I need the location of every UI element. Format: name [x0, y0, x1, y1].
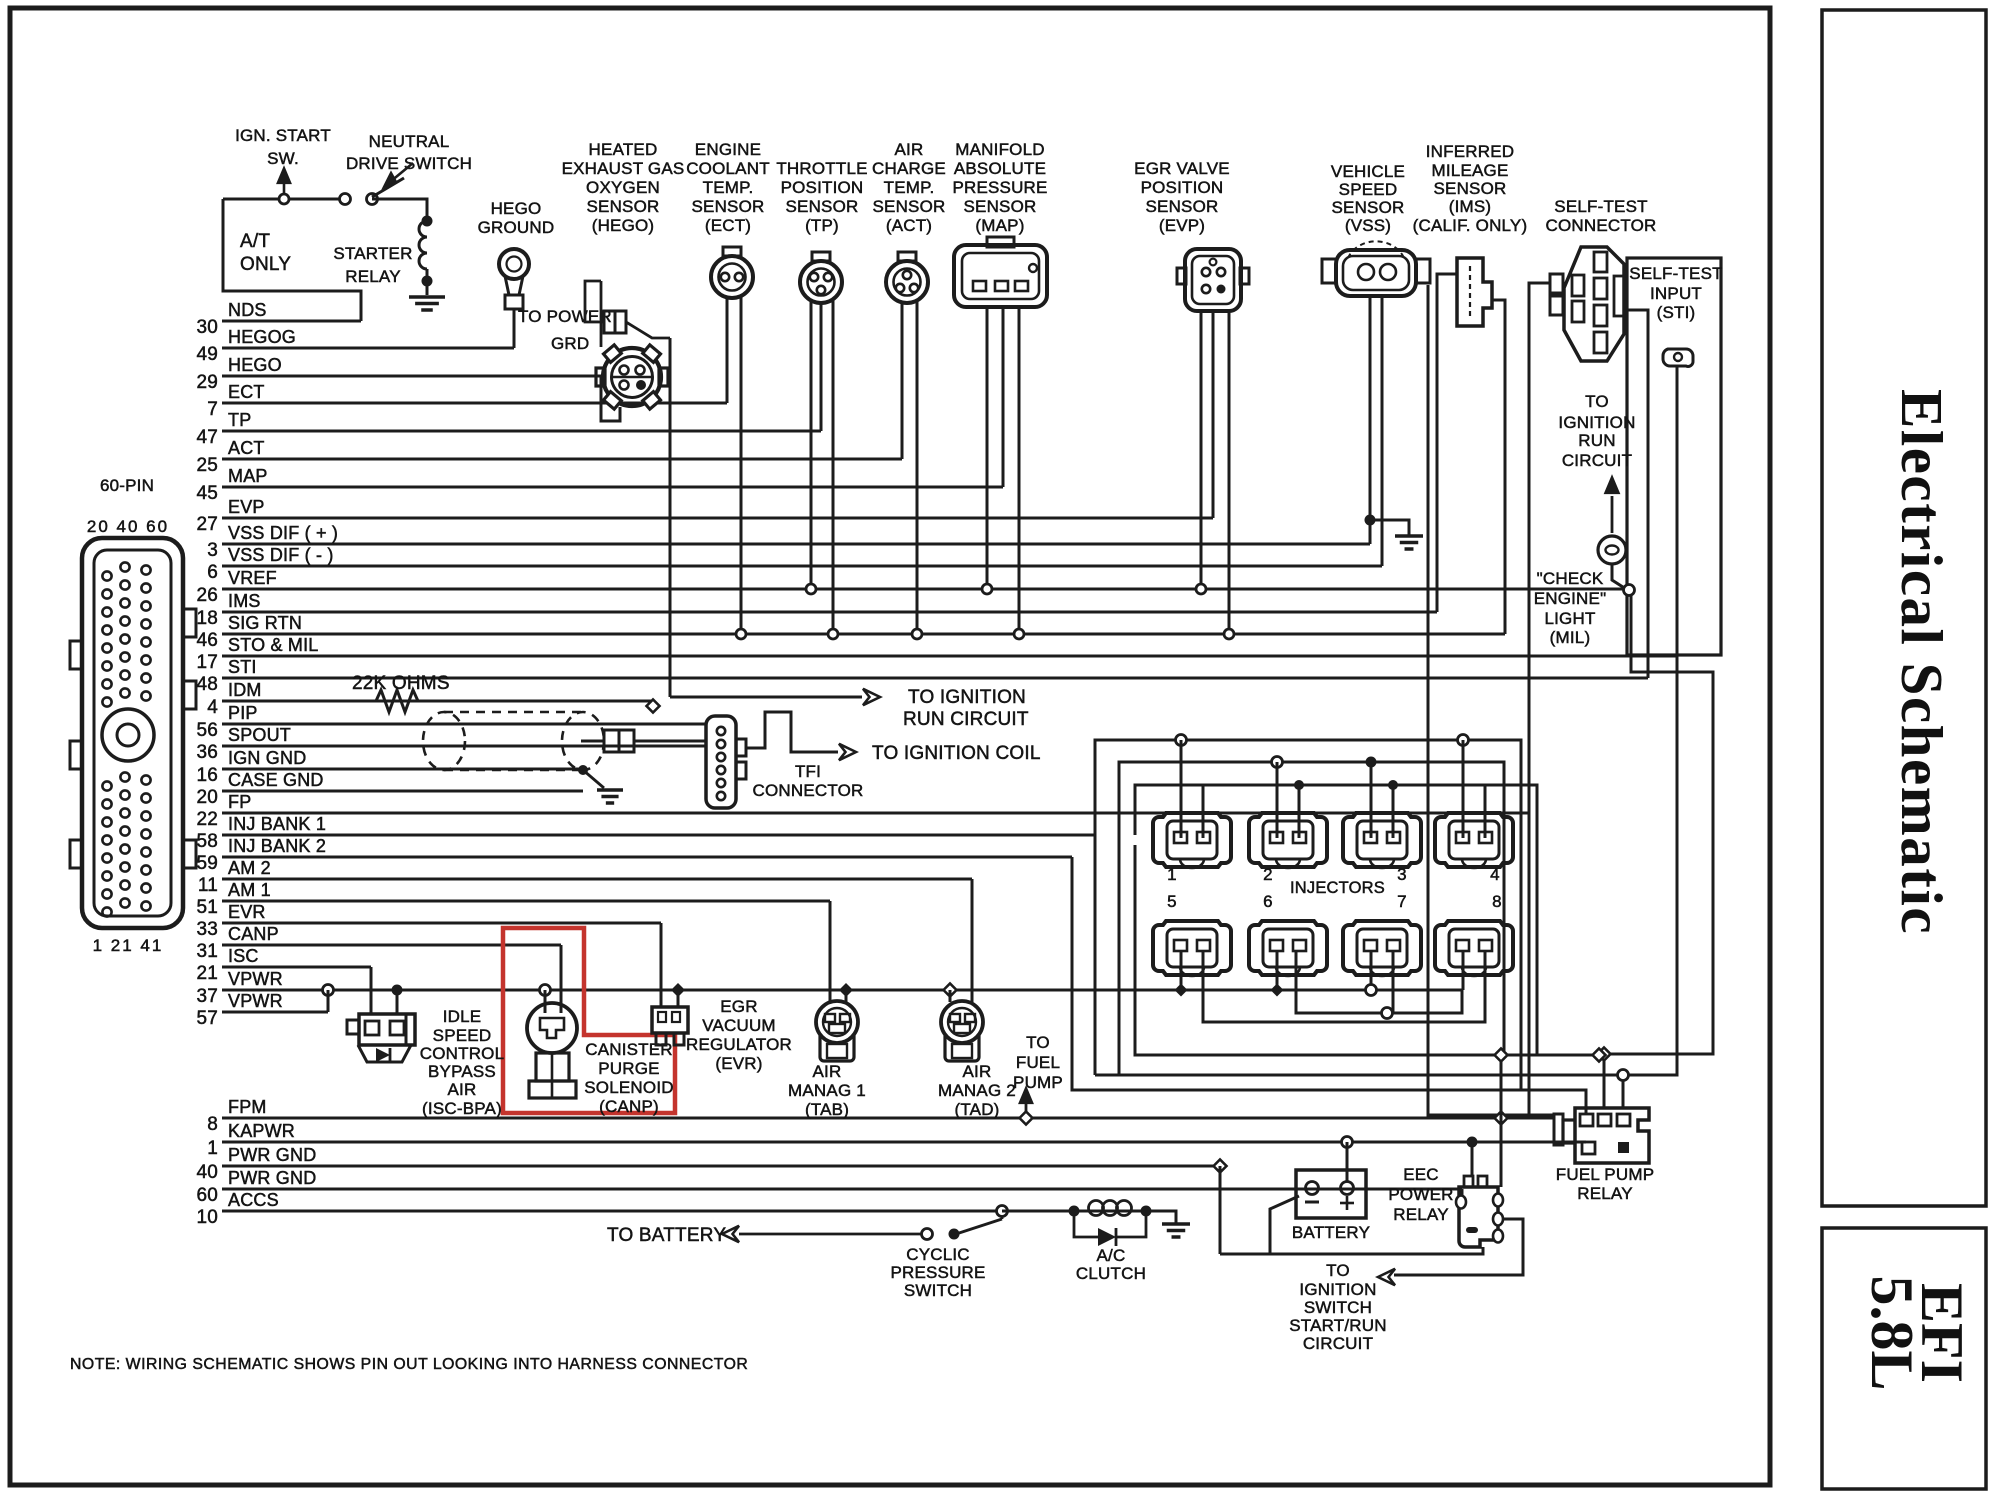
- svg-text:20: 20: [196, 787, 218, 808]
- svg-text:REGULATOR: REGULATOR: [686, 1035, 792, 1054]
- injector 4: [1435, 813, 1513, 867]
- svg-text:PUMP: PUMP: [1013, 1073, 1063, 1092]
- svg-text:FP: FP: [228, 792, 251, 812]
- svg-text:59: 59: [196, 853, 218, 874]
- check engine light (MIL): [1598, 536, 1626, 564]
- svg-text:A/C: A/C: [1097, 1246, 1126, 1265]
- inline connector wire: [581, 740, 604, 743]
- PWR GND 60 bend to EEC left pin: [1461, 1189, 1464, 1196]
- svg-text:21: 21: [196, 963, 218, 984]
- svg-text:ISC: ISC: [228, 946, 259, 966]
- injector 6: [1249, 921, 1327, 975]
- svg-text:RUN CIRCUIT: RUN CIRCUIT: [903, 709, 1029, 730]
- svg-text:16: 16: [196, 765, 218, 786]
- inline connector on HEGO power lead: [604, 311, 615, 333]
- svg-text:25: 25: [196, 455, 218, 476]
- wire ECT pin 7: [222, 402, 727, 405]
- svg-text:5: 5: [1167, 892, 1177, 911]
- injector 8: [1435, 921, 1513, 975]
- wire A/T circuit top: [223, 198, 345, 201]
- svg-text:6: 6: [207, 562, 218, 583]
- injector 3: [1343, 813, 1421, 867]
- TAD leads: [944, 984, 957, 997]
- svg-text:THROTTLE: THROTTLE: [776, 159, 867, 178]
- svg-text:49: 49: [196, 344, 218, 365]
- svg-text:BATTERY: BATTERY: [1292, 1223, 1370, 1242]
- svg-text:ACT: ACT: [228, 438, 265, 458]
- svg-text:AM 2: AM 2: [228, 858, 271, 878]
- svg-text:TO IGNITION: TO IGNITION: [908, 687, 1026, 708]
- wire ACT pin 25: [222, 458, 902, 461]
- svg-text:22: 22: [196, 809, 218, 830]
- wire SPOUT pin 36: [222, 745, 706, 748]
- IMS leads: [1437, 274, 1457, 612]
- svg-text:18: 18: [196, 608, 218, 629]
- svg-text:TO: TO: [1585, 392, 1609, 411]
- svg-text:CANP: CANP: [228, 924, 279, 944]
- wire EVR pin 33: [222, 922, 661, 925]
- wire ISC pin 21: [222, 966, 371, 969]
- svg-text:EFI: EFI: [1909, 1283, 1975, 1383]
- svg-text:RELAY: RELAY: [1577, 1184, 1633, 1203]
- resistor 22K OHMS on IDM: [376, 690, 418, 712]
- svg-text:3: 3: [1397, 865, 1407, 884]
- wire CANP pin 31: [222, 944, 561, 947]
- svg-text:58: 58: [196, 831, 218, 852]
- svg-text:VPWR: VPWR: [228, 969, 283, 989]
- self-test connector symbol: [1564, 247, 1624, 361]
- svg-text:1 21 41: 1 21 41: [93, 936, 164, 955]
- wire STO & MIL pin 17: [222, 655, 1677, 658]
- sensor EVP (EGR valve position): [1185, 249, 1241, 311]
- wire IMS pin 18: [222, 611, 1437, 614]
- switch blade: [372, 178, 404, 197]
- ACT leads: [901, 302, 904, 459]
- sensor ACT (air charge temp): [886, 261, 928, 303]
- EEC to ignition switch wire: [1394, 1219, 1523, 1275]
- svg-text:TP: TP: [228, 410, 251, 430]
- svg-text:POSITION: POSITION: [1141, 178, 1224, 197]
- svg-text:VSS DIF ( - ): VSS DIF ( - ): [228, 545, 334, 565]
- vertical from diamonds to EEC top: [1495, 1112, 1508, 1125]
- connector pin holes: [102, 571, 111, 580]
- svg-text:OXYGEN: OXYGEN: [586, 178, 660, 197]
- svg-text:VSS DIF ( + ): VSS DIF ( + ): [228, 523, 338, 543]
- wire FP pin 22: [222, 812, 1529, 815]
- TAB (air manag 1) connector: [816, 1001, 858, 1043]
- svg-text:DRIVE SWITCH: DRIVE SWITCH: [346, 154, 472, 173]
- svg-text:SWITCH: SWITCH: [904, 1281, 972, 1300]
- svg-text:PRESSURE: PRESSURE: [890, 1263, 985, 1282]
- svg-text:Electrical Schematic: Electrical Schematic: [1889, 389, 1955, 935]
- wire PWR GND pin 40: [222, 1165, 1220, 1168]
- injector 7: [1343, 921, 1421, 975]
- svg-text:33: 33: [196, 919, 218, 940]
- svg-text:46: 46: [196, 630, 218, 651]
- svg-text:ABSOLUTE: ABSOLUTE: [954, 159, 1046, 178]
- svg-text:FUEL: FUEL: [1016, 1053, 1060, 1072]
- wire ACCS pin 10: [222, 1210, 1002, 1213]
- wire MAP pin 45: [222, 486, 1003, 489]
- svg-text:RUN: RUN: [1578, 431, 1615, 450]
- wire TO IGNITION COIL: [746, 712, 838, 752]
- arrow to IGN. START SW.: [283, 174, 286, 194]
- wire HEGOG pin 49: [222, 347, 514, 350]
- svg-text:SWITCH: SWITCH: [1304, 1298, 1372, 1317]
- svg-text:HEGOG: HEGOG: [228, 327, 296, 347]
- svg-text:37: 37: [196, 986, 218, 1007]
- svg-text:CASE GND: CASE GND: [228, 770, 324, 790]
- svg-text:EVP: EVP: [228, 497, 265, 517]
- svg-text:NOTE: WIRING SCHEMATIC SHOWS P: NOTE: WIRING SCHEMATIC SHOWS PIN OUT LOO…: [70, 1356, 748, 1373]
- TO FUEL PUMP arrow: [1020, 1112, 1033, 1125]
- svg-text:SENSOR: SENSOR: [692, 197, 765, 216]
- EEC power relay symbol: [1459, 1187, 1498, 1247]
- VPWR bend into injector bottom bus: [1296, 952, 1462, 1013]
- switch contact right: [367, 194, 378, 205]
- svg-text:3: 3: [207, 540, 218, 561]
- wire IDM pin 4: [222, 700, 653, 703]
- wire INJ BANK 1 pin 58: [222, 834, 1095, 837]
- sensor HEGO (heated exhaust gas oxygen): [603, 348, 661, 406]
- svg-text:EGR: EGR: [720, 997, 757, 1016]
- svg-text:ENGINE: ENGINE: [695, 140, 761, 159]
- self-test left wire down to FP row and relay: [1529, 283, 1554, 1115]
- svg-text:MAP: MAP: [228, 466, 268, 486]
- junction circles on SIG RTN row: [736, 629, 746, 639]
- wire TP pin 47: [222, 430, 821, 433]
- svg-text:SENSOR: SENSOR: [1434, 179, 1507, 198]
- svg-text:57: 57: [196, 1008, 218, 1029]
- svg-text:BYPASS: BYPASS: [428, 1062, 496, 1081]
- svg-text:SENSOR: SENSOR: [786, 197, 859, 216]
- svg-text:EVR: EVR: [228, 902, 266, 922]
- svg-text:HEATED: HEATED: [589, 140, 658, 159]
- svg-text:4: 4: [1490, 865, 1500, 884]
- svg-text:(MIL): (MIL): [1550, 628, 1591, 647]
- svg-text:CYCLIC: CYCLIC: [906, 1245, 970, 1264]
- svg-text:NEUTRAL: NEUTRAL: [369, 132, 450, 151]
- svg-text:EEC: EEC: [1403, 1165, 1439, 1184]
- svg-text:(TAB): (TAB): [805, 1100, 849, 1119]
- svg-text:POSITION: POSITION: [781, 178, 864, 197]
- svg-text:30: 30: [196, 317, 218, 338]
- svg-text:11: 11: [198, 875, 218, 896]
- connector center jack screw: [102, 709, 154, 761]
- ground for A/C clutch: [1146, 1211, 1176, 1224]
- svg-text:HEGO: HEGO: [228, 355, 282, 375]
- ECT leads: [726, 298, 729, 403]
- svg-text:INJECTORS: INJECTORS: [1290, 879, 1385, 897]
- svg-text:PURGE: PURGE: [598, 1059, 659, 1078]
- TAB leads: [829, 901, 832, 1003]
- svg-text:SENSOR: SENSOR: [1332, 198, 1405, 217]
- svg-text:SPEED: SPEED: [433, 1026, 492, 1045]
- svg-text:PWR GND: PWR GND: [228, 1145, 316, 1165]
- svg-text:48: 48: [196, 674, 218, 695]
- svg-text:"CHECK: "CHECK: [1537, 569, 1604, 588]
- wire SIG RTN pin 46: [222, 633, 1505, 636]
- svg-text:CONTROL: CONTROL: [420, 1044, 505, 1063]
- shielded cable dashed oval right: [562, 712, 604, 770]
- injector bus rectangles: [1095, 740, 1521, 1090]
- wire MIL junction down to fuel pump relay: [1609, 595, 1713, 1054]
- svg-text:(EVR): (EVR): [715, 1054, 762, 1073]
- VSS ground branch: [1365, 515, 1376, 526]
- wire FPM pin 8: [222, 1117, 1554, 1120]
- injector top feed drops: [1176, 735, 1187, 746]
- svg-text:TO BATTERY: TO BATTERY: [607, 1225, 726, 1246]
- svg-text:VACUUM: VACUUM: [702, 1016, 776, 1035]
- svg-text:7: 7: [207, 399, 218, 420]
- svg-text:STARTER: STARTER: [333, 244, 412, 263]
- svg-text:(IMS): (IMS): [1449, 197, 1492, 216]
- svg-text:47: 47: [196, 427, 218, 448]
- svg-text:TEMP.: TEMP.: [703, 178, 754, 197]
- svg-text:7: 7: [1397, 892, 1407, 911]
- svg-text:MANAG 2: MANAG 2: [938, 1081, 1016, 1100]
- wire VSS DIF ( + ) pin 3: [222, 543, 1370, 546]
- svg-text:SENSOR: SENSOR: [1146, 197, 1219, 216]
- svg-text:SOLENOID: SOLENOID: [584, 1078, 673, 1097]
- svg-text:56: 56: [196, 720, 218, 741]
- wire INJ BANK 2 pin 59: [222, 856, 1072, 859]
- svg-text:TO IGNITION COIL: TO IGNITION COIL: [872, 743, 1041, 764]
- wire VPWR pin 37: [222, 989, 1462, 992]
- node ign start sw tap: [279, 194, 289, 204]
- MIL wire to VREF node: [1612, 564, 1626, 589]
- svg-text:51: 51: [196, 897, 218, 918]
- inline connector: [604, 730, 619, 752]
- svg-text:1: 1: [207, 1138, 218, 1159]
- sensor VSS (vehicle speed): [1336, 250, 1416, 296]
- wire VREF pin 26: [222, 588, 1626, 591]
- lower injector bus 2: [1203, 952, 1485, 1022]
- svg-text:(CALIF. ONLY): (CALIF. ONLY): [1413, 216, 1528, 235]
- svg-text:ECT: ECT: [228, 382, 265, 402]
- STI input box: [1627, 258, 1721, 655]
- svg-text:(CANP): (CANP): [599, 1097, 659, 1116]
- svg-text:AIR: AIR: [895, 140, 924, 159]
- injector 5: [1153, 921, 1231, 975]
- svg-text:IGNITION: IGNITION: [1299, 1280, 1376, 1299]
- A/C clutch diode: [1074, 1211, 1098, 1237]
- battery: [1296, 1170, 1366, 1218]
- svg-text:AIR: AIR: [448, 1080, 477, 1099]
- A/C clutch branch wire: [1002, 1210, 1074, 1213]
- wire VSS DIF ( - ) pin 6: [222, 565, 1382, 568]
- svg-text:A/T: A/T: [240, 231, 270, 252]
- svg-text:(TAD): (TAD): [954, 1100, 999, 1119]
- svg-text:10: 10: [196, 1207, 218, 1228]
- svg-text:(HEGO): (HEGO): [592, 216, 655, 235]
- wire STI pin 48: [222, 677, 1648, 680]
- svg-text:1: 1: [1167, 865, 1177, 884]
- ISC row bend: [370, 967, 373, 1014]
- node IDM junction: [647, 700, 660, 713]
- svg-text:KAPWR: KAPWR: [228, 1121, 295, 1141]
- sensor TP (throttle position): [800, 261, 842, 303]
- svg-text:CIRCUIT: CIRCUIT: [1562, 451, 1632, 470]
- wire IGN GND pin 16: [222, 768, 583, 771]
- EEC 60-pin connector J1: [82, 538, 183, 928]
- svg-text:20 40 60: 20 40 60: [87, 517, 169, 536]
- svg-text:PRESSURE: PRESSURE: [952, 178, 1047, 197]
- svg-text:START/RUN: START/RUN: [1289, 1316, 1387, 1335]
- sidebar box: Electrical Schematic: [1822, 10, 1986, 1206]
- wire/arrow TO IGNITION RUN CIRCUIT (middle): [670, 696, 862, 699]
- svg-text:STO & MIL: STO & MIL: [228, 635, 319, 655]
- battery - wire to EEC relay bottom: [1270, 1196, 1483, 1254]
- svg-text:EGR VALVE: EGR VALVE: [1134, 159, 1230, 178]
- sensor ECT (engine coolant temp): [711, 256, 753, 298]
- svg-text:FPM: FPM: [228, 1097, 267, 1117]
- arrow from label to blade: [390, 163, 413, 182]
- injector bottom pin drops: [1180, 952, 1183, 990]
- shielded cable dashed oval left: [423, 712, 465, 770]
- wire VPWR pin 57: [222, 1011, 328, 1014]
- ground (starter relay): [409, 295, 445, 299]
- TO BATTERY arrow: [739, 1233, 921, 1236]
- sidebar box: 5.8L EFI: [1822, 1228, 1986, 1489]
- svg-text:EXHAUST GAS: EXHAUST GAS: [562, 159, 685, 178]
- injector 2: [1249, 813, 1327, 867]
- svg-text:27: 27: [196, 514, 218, 535]
- svg-text:PIP: PIP: [228, 703, 258, 723]
- node VPWR junctions: [323, 985, 334, 996]
- svg-text:CONNECTOR: CONNECTOR: [1545, 216, 1656, 235]
- sensor IMS (inferred mileage): [1457, 258, 1492, 326]
- STI pigtail wire down to relay: [1623, 366, 1677, 1108]
- svg-text:RELAY: RELAY: [1393, 1205, 1449, 1224]
- svg-text:(STI): (STI): [1657, 303, 1696, 322]
- svg-text:36: 36: [196, 742, 218, 763]
- injector box lower left edge: [1135, 845, 1537, 1055]
- PWR GND 40 drop: [1214, 1160, 1227, 1173]
- svg-text:IDM: IDM: [228, 680, 262, 700]
- svg-text:SELF-TEST: SELF-TEST: [1629, 264, 1722, 283]
- svg-text:(TP): (TP): [805, 216, 839, 235]
- svg-text:PWR GND: PWR GND: [228, 1168, 316, 1188]
- sensor MAP (manifold absolute pressure): [954, 245, 1047, 307]
- svg-text:SELF-TEST: SELF-TEST: [1554, 197, 1647, 216]
- svg-text:IGNITION: IGNITION: [1558, 413, 1635, 432]
- switch contact left: [340, 194, 351, 205]
- svg-text:COOLANT: COOLANT: [686, 159, 770, 178]
- fuel pump relay symbol: [1575, 1108, 1649, 1163]
- svg-text:AIR: AIR: [963, 1062, 992, 1081]
- svg-text:TO: TO: [1026, 1033, 1050, 1052]
- svg-text:AM 1: AM 1: [228, 880, 271, 900]
- svg-text:(EVP): (EVP): [1159, 216, 1205, 235]
- svg-text:LIGHT: LIGHT: [1544, 609, 1595, 628]
- arrow up to ignition run circuit: [1611, 496, 1614, 533]
- battery + wire up to KAPWR: [1342, 1137, 1353, 1148]
- svg-text:SENSOR: SENSOR: [964, 197, 1037, 216]
- svg-text:ONLY: ONLY: [240, 254, 291, 275]
- svg-text:TO: TO: [1326, 1261, 1350, 1280]
- A/C clutch coil: [1074, 1210, 1146, 1213]
- wire A/T box left/bottom: [223, 199, 361, 321]
- KAPWR drop to EEC relay: [1467, 1137, 1478, 1148]
- svg-text:6: 6: [1263, 892, 1273, 911]
- svg-text:GROUND: GROUND: [478, 218, 555, 237]
- svg-text:INJ BANK 1: INJ BANK 1: [228, 814, 326, 834]
- svg-text:4: 4: [207, 697, 218, 718]
- svg-text:VPWR: VPWR: [228, 991, 283, 1011]
- shield drain to ground: [583, 770, 604, 788]
- svg-text:RELAY: RELAY: [345, 267, 401, 286]
- svg-text:ENGINE": ENGINE": [1534, 589, 1607, 608]
- svg-text:FUEL PUMP: FUEL PUMP: [1556, 1165, 1654, 1184]
- svg-text:CONNECTOR: CONNECTOR: [752, 781, 863, 800]
- svg-text:SENSOR: SENSOR: [587, 197, 660, 216]
- bus line lower: [1072, 857, 1586, 1114]
- junction circles on VREF row: [806, 584, 816, 594]
- svg-text:AIR: AIR: [813, 1062, 842, 1081]
- wire EVP pin 27: [222, 517, 1213, 520]
- bus line to EEC area: [1095, 1074, 1617, 1077]
- svg-text:HEGO: HEGO: [491, 199, 542, 218]
- starter relay coil: [422, 216, 433, 227]
- CANP solenoid symbol: [540, 985, 551, 996]
- svg-text:(MAP): (MAP): [975, 216, 1024, 235]
- injector 1: [1153, 813, 1231, 867]
- svg-text:SIG RTN: SIG RTN: [228, 613, 302, 633]
- svg-text:TEMP.: TEMP.: [884, 178, 935, 197]
- wire CASE GND pin 20: [222, 790, 583, 793]
- svg-text:MANIFOLD: MANIFOLD: [955, 140, 1044, 159]
- svg-text:SPOUT: SPOUT: [228, 725, 291, 745]
- svg-text:8: 8: [1492, 892, 1502, 911]
- svg-text:POWER: POWER: [1388, 1185, 1453, 1204]
- long vertical from VSS area to relay region: [1428, 285, 1529, 1115]
- STI wire from connector to STI row: [1627, 310, 1648, 678]
- svg-text:SW.: SW.: [267, 149, 299, 168]
- svg-text:CLUTCH: CLUTCH: [1076, 1264, 1146, 1283]
- HEGO ground connector symbol: [499, 249, 529, 279]
- svg-text:MILEAGE: MILEAGE: [1432, 161, 1509, 180]
- svg-text:CHARGE: CHARGE: [872, 159, 946, 178]
- svg-text:(ACT): (ACT): [886, 216, 932, 235]
- svg-text:NDS: NDS: [228, 300, 267, 320]
- svg-text:MANAG 1: MANAG 1: [788, 1081, 866, 1100]
- svg-text:60-PIN: 60-PIN: [100, 476, 154, 495]
- svg-text:CANISTER: CANISTER: [585, 1040, 673, 1059]
- wire HEGO pin 29: [222, 375, 601, 378]
- svg-text:STI: STI: [228, 657, 257, 677]
- svg-text:SPEED: SPEED: [1339, 180, 1398, 199]
- svg-text:(VSS): (VSS): [1345, 216, 1391, 235]
- wire PWR GND pin 60: [222, 1188, 1462, 1191]
- ISC-BPA solenoid symbol: [359, 1014, 415, 1045]
- red highlight box around CANP: [503, 928, 675, 1113]
- wire AM 1 pin 51: [222, 900, 830, 903]
- svg-text:26: 26: [196, 585, 218, 606]
- svg-text:INPUT: INPUT: [1650, 284, 1702, 303]
- svg-text:IGN GND: IGN GND: [228, 748, 306, 768]
- svg-text:VEHICLE: VEHICLE: [1331, 162, 1405, 181]
- EVP leads: [1200, 311, 1203, 589]
- svg-text:IDLE: IDLE: [443, 1007, 482, 1026]
- svg-text:TFI: TFI: [795, 762, 821, 781]
- VSS leads: [1369, 296, 1372, 544]
- cyclic pressure switch: [997, 1206, 1008, 1217]
- svg-text:CIRCUIT: CIRCUIT: [1303, 1334, 1373, 1353]
- svg-text:22K OHMS: 22K OHMS: [352, 673, 450, 694]
- svg-text:IGN. START: IGN. START: [235, 126, 331, 145]
- svg-text:SENSOR: SENSOR: [873, 197, 946, 216]
